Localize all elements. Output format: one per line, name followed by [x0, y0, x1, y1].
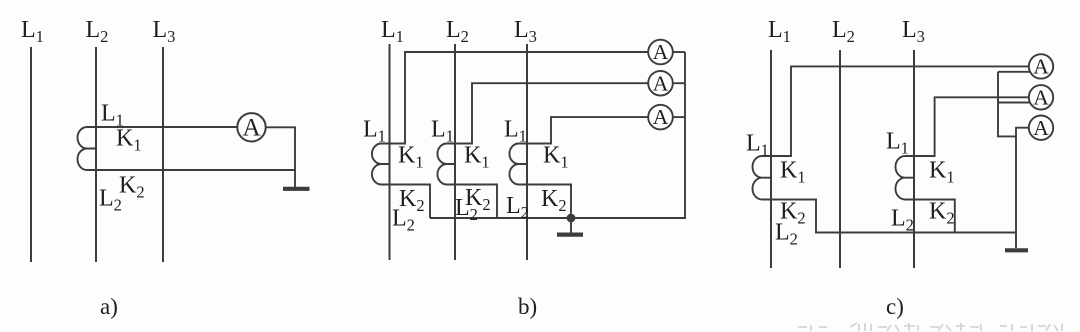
ammeter A (a) — [237, 113, 265, 141]
ammeter A1 (b) — [648, 40, 673, 65]
wire K1 of T1 to ammeter A1 (b) — [390, 52, 649, 144]
svg-text:L1: L1 — [363, 117, 386, 146]
current transformer T2 (b) secondary loops — [437, 144, 455, 185]
wire K1 to ammeter (a) — [87, 126, 237, 128]
ammeter A2 (b) — [648, 71, 673, 96]
phase line L2 (c) — [839, 50, 841, 268]
phase line L2 (a) — [95, 47, 97, 262]
svg-text:K2: K2 — [119, 173, 145, 202]
current transformer T3 (b) secondary loops — [509, 144, 527, 185]
current transformer T1 (c) secondary loops — [752, 156, 771, 200]
svg-text:A: A — [1033, 55, 1049, 79]
svg-text:K1: K1 — [780, 158, 806, 187]
wire A1 lower stub to left bus (c) — [998, 71, 1030, 73]
svg-text:L1: L1 — [768, 17, 791, 46]
ground (c) — [1005, 248, 1028, 252]
svg-text:K1: K1 — [543, 143, 569, 172]
wire A2 lower stub to left bus (c) — [998, 102, 1030, 104]
wire K2 of T3 to bus (b) — [527, 185, 571, 219]
svg-text:A: A — [653, 40, 669, 64]
svg-text:L2: L2 — [832, 17, 855, 46]
svg-text:L2: L2 — [891, 206, 914, 235]
phase line L3 (c) — [913, 50, 915, 268]
svg-text:L1: L1 — [381, 17, 404, 46]
wire K2 of T3 drop (c) — [914, 200, 955, 233]
current transformer T3 (c) secondary loops — [895, 156, 914, 200]
svg-text:c): c) — [886, 294, 904, 319]
wire A3 right stub (b) — [673, 116, 685, 118]
svg-text:L3: L3 — [153, 17, 176, 46]
svg-text:L2: L2 — [446, 17, 469, 46]
ammeter A3 (c) — [1029, 116, 1053, 140]
svg-text:L3: L3 — [514, 17, 537, 46]
wire K1 of T3 to ammeter A3 (b) — [527, 117, 648, 143]
svg-text:L2: L2 — [506, 193, 529, 222]
current transformer T1 (a) secondary loops — [78, 127, 97, 170]
wire A1 right stub (b) — [673, 51, 685, 53]
svg-text:K2: K2 — [929, 199, 955, 228]
svg-text:A: A — [653, 105, 669, 129]
ground stub (b) — [570, 218, 572, 233]
svg-text:b): b) — [518, 294, 537, 319]
svg-text:A: A — [1033, 116, 1049, 140]
wire ammeter to right corner (a) — [266, 127, 295, 187]
svg-text:A: A — [1033, 85, 1049, 109]
svg-text:K1: K1 — [116, 126, 142, 155]
svg-text:a): a) — [100, 294, 118, 319]
wire K1 of T2 to ammeter A2 (b) — [455, 83, 648, 143]
svg-text:A: A — [653, 71, 669, 95]
svg-text:L1: L1 — [746, 131, 769, 160]
phase line L3 (b) — [526, 44, 528, 260]
wire A2 right stub (b) — [673, 82, 685, 84]
diagram b — [372, 40, 685, 260]
svg-text:L2: L2 — [86, 17, 109, 46]
diagram c — [752, 50, 1053, 268]
wire common down to ground (c) — [1015, 136, 1017, 248]
phase line L1 (b) — [389, 44, 391, 260]
wire right return bus (b) — [430, 52, 685, 218]
phase line L3 (a) — [162, 47, 164, 262]
phase line L1 (a) — [30, 47, 32, 262]
wire K1 of T1 to ammeter A1 (c) — [771, 66, 1029, 156]
svg-text:L1: L1 — [431, 117, 454, 146]
current transformer T1 (b) secondary loops — [372, 144, 390, 185]
svg-text:K2: K2 — [541, 186, 567, 215]
svg-text:L1: L1 — [21, 17, 44, 46]
ammeter A1 (c) — [1029, 54, 1053, 78]
svg-text:L1: L1 — [504, 117, 527, 146]
wire K2 return (a) — [96, 169, 295, 171]
diagram a — [31, 47, 310, 262]
ground (b) — [557, 233, 583, 237]
wire K1 of T3 to ammeter A2 (c) — [914, 97, 1029, 156]
svg-text:K1: K1 — [464, 143, 490, 172]
svg-text:L3: L3 — [902, 17, 925, 46]
phase line L2 (b) — [454, 44, 456, 260]
wire left bus (c) — [998, 72, 1016, 137]
ammeter A2 (c) — [1029, 85, 1053, 109]
wire A3 left hook (c) — [1016, 128, 1029, 137]
ammeter A3 (b) — [648, 105, 673, 130]
svg-text:K1: K1 — [398, 143, 424, 172]
svg-text:A: A — [242, 115, 260, 142]
junction dot (b) — [567, 214, 576, 223]
svg-text:L1: L1 — [886, 129, 909, 158]
phase line L1 (c) — [770, 50, 772, 268]
wire K2 of T1 to bus (b) — [390, 185, 431, 219]
wire K2 of T2 to bus (b) — [455, 185, 497, 219]
svg-text:K1: K1 — [929, 158, 955, 187]
wire K2 of T1 along bottom bus (c) — [771, 200, 1016, 233]
faint watermark remnant at bottom edge — [798, 323, 1062, 331]
ground (a) — [283, 187, 310, 191]
